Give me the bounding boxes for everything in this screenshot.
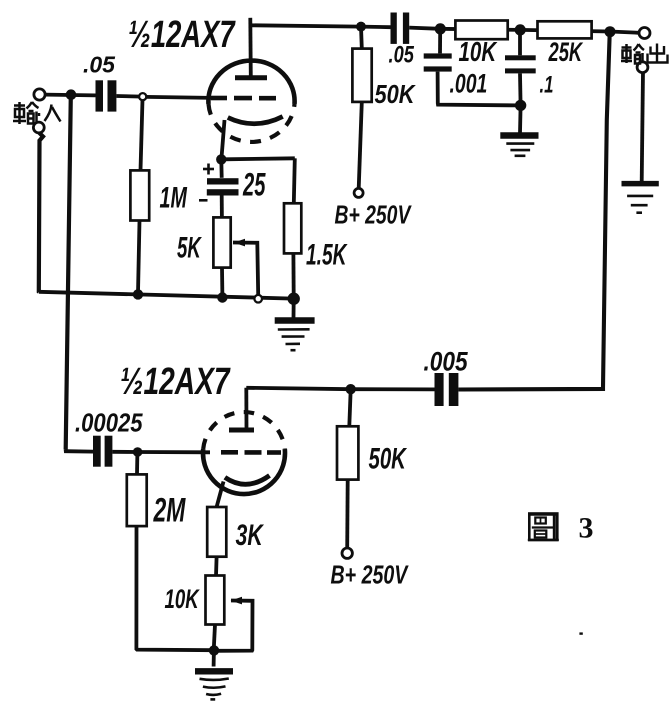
svg-text:1.5K: 1.5K — [306, 238, 348, 271]
svg-text:.1: .1 — [540, 72, 554, 99]
svg-text:.00025: .00025 — [75, 409, 143, 438]
svg-text:.001: .001 — [450, 68, 488, 98]
svg-text:½12AX7: ½12AX7 — [128, 14, 236, 56]
svg-text:2M: 2M — [153, 492, 186, 530]
svg-text:B+ 250V: B+ 250V — [335, 200, 412, 229]
svg-text:50K: 50K — [369, 443, 408, 476]
svg-text:½12AX7: ½12AX7 — [120, 361, 231, 403]
svg-text:10K: 10K — [165, 584, 201, 614]
svg-text:3: 3 — [579, 512, 594, 545]
svg-text:50K: 50K — [375, 80, 417, 109]
svg-text:.05: .05 — [83, 52, 116, 78]
svg-text:1M: 1M — [160, 181, 188, 214]
svg-text:5K: 5K — [177, 231, 202, 265]
svg-text:25: 25 — [242, 167, 266, 203]
svg-text:.005: .005 — [424, 347, 469, 377]
svg-text:.05: .05 — [389, 41, 415, 68]
svg-text:3K: 3K — [236, 517, 265, 552]
svg-text:25K: 25K — [548, 36, 584, 66]
svg-text:B+ 250V: B+ 250V — [331, 560, 409, 589]
svg-text:10K: 10K — [459, 37, 499, 68]
